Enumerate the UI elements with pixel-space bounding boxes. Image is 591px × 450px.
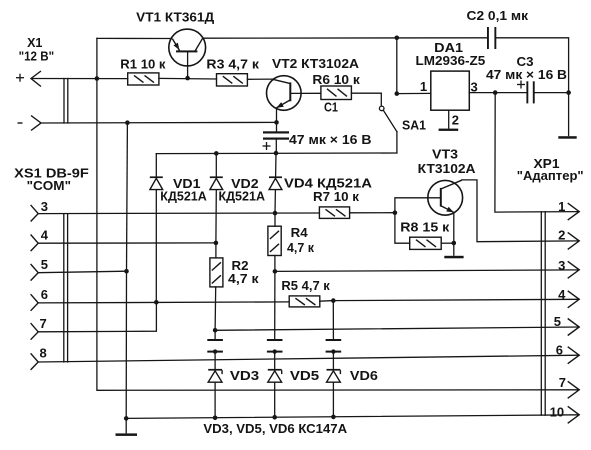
XP1 pin10 arrow: [568, 406, 580, 423]
resistor R5: [289, 296, 320, 307]
svg-text:VD3: VD3: [230, 369, 259, 383]
wire ground bus to XP1 pin10: [126, 415, 579, 419]
wire output node down to XP1 pin1: [495, 93, 579, 213]
voltage regulator DA1 box: [431, 71, 470, 110]
svg-text:R8 15 к: R8 15 к: [400, 221, 450, 235]
svg-text:VD3, VD5, VD6 КС147А: VD3, VD5, VD6 КС147А: [203, 422, 347, 436]
node minus wire VT2 emitter C1: [274, 120, 279, 125]
SA1 switch blade: [384, 111, 397, 132]
svg-text:КТ3102А: КТ3102А: [418, 162, 476, 176]
svg-text:4: 4: [41, 228, 49, 243]
svg-text:X1: X1: [27, 36, 42, 50]
XP1 pin2 arrow: [568, 232, 580, 249]
wire R3 to VT2 collector: [247, 78, 272, 80]
wire top rail right segment VT1 collector to C2: [203, 37, 488, 39]
XS1 pin4 wire: [38, 242, 216, 244]
ground bottom left: [116, 418, 138, 436]
node C1 bottom VD4 top: [274, 151, 279, 156]
diode VD1: [150, 176, 163, 189]
X1 connector body double line: [63, 79, 65, 124]
wire R2 node to XP1 pin5: [215, 327, 579, 330]
node plus wire x97: [95, 76, 100, 81]
wire VD4 anode to pin3 node: [274, 190, 276, 214]
resistor R3: [217, 74, 248, 86]
zener VD5: [268, 369, 282, 382]
svg-text:VT2 КТ3102А: VT2 КТ3102А: [272, 57, 359, 71]
XS1 pin3 wire: [38, 212, 319, 215]
node VD6 ground bus: [331, 415, 336, 420]
svg-text:4,7 к: 4,7 к: [228, 272, 259, 286]
transistor VT2: [267, 76, 302, 111]
wire R4 node to XP1 pin3: [275, 270, 579, 272]
wire R5 node to XP1 pin4: [333, 299, 579, 300]
wire C1 bottom plate to VD line: [275, 140, 277, 153]
SA1 switch contact: [379, 106, 384, 111]
XS1 pin6 wire to R5: [38, 302, 289, 303]
resistor R7: [319, 207, 349, 219]
DA1 pin2 stem: [448, 110, 450, 128]
node DA1 pin1 vertical: [395, 91, 400, 96]
svg-text:SA1: SA1: [402, 119, 426, 133]
wire cap VD6 to zener VD6: [332, 353, 334, 369]
wire R4 node down to cap VD5: [274, 271, 276, 339]
diode VD2: [210, 176, 223, 189]
node pin5 end x127: [124, 269, 129, 274]
wire VD1 column: [155, 154, 157, 177]
svg-text:3: 3: [471, 80, 478, 95]
XS1 pin8 arrow: [31, 353, 39, 370]
svg-text:7: 7: [40, 316, 47, 331]
zener VD3: [208, 369, 222, 382]
svg-text:VT3: VT3: [432, 148, 458, 162]
XP1 pin1 arrow: [568, 203, 580, 220]
svg-text:7: 7: [559, 375, 566, 390]
wire SA1 to VD top line: [396, 132, 398, 153]
svg-text:47 мк × 16 В: 47 мк × 16 В: [486, 68, 567, 82]
node top rail / SA1-DA1 vertical: [395, 36, 400, 41]
svg-text:"Адаптер": "Адаптер": [517, 169, 584, 183]
svg-text:10: 10: [550, 405, 564, 420]
wire R5 right lead: [320, 300, 334, 303]
node C3 right ground: [566, 90, 571, 95]
svg-text:3: 3: [41, 199, 48, 214]
svg-text:6: 6: [556, 343, 563, 358]
capacitor C3: [526, 81, 534, 103]
svg-text:2: 2: [452, 112, 459, 127]
svg-text:4: 4: [558, 287, 566, 302]
resistor R6: [321, 86, 352, 100]
node R4 bottom XP1 pin3: [273, 269, 278, 274]
wire +12V vertical bus x=97 down to XP1 pin7 line: [97, 38, 579, 390]
XP1 pin3 arrow: [568, 261, 580, 278]
connector X1 minus arrow: [31, 116, 41, 131]
X1 plus sign: [16, 74, 24, 82]
wire pin7 node to cap VD3: [214, 330, 216, 339]
XS1 pin4 arrow: [31, 235, 39, 252]
wire X1 plus to R1: [32, 78, 128, 80]
wire VT1 base stem: [187, 52, 189, 78]
node R5 VD6 column: [331, 298, 336, 303]
svg-text:"COM": "COM": [27, 179, 71, 193]
resistor R2 vertical: [210, 258, 223, 287]
wire VD4 column cathode: [275, 153, 277, 176]
ground under VT3 emitter: [444, 256, 463, 258]
node VD4 R4 pin3: [273, 211, 278, 216]
wire R7 to VT3 base node: [350, 212, 395, 214]
svg-text:LM2936-Z5: LM2936-Z5: [416, 54, 486, 68]
capacitor above VD5: [267, 339, 283, 354]
node pin3 VT3 base R8: [393, 210, 398, 215]
wire VD2 anode to pin4 node: [215, 190, 217, 243]
svg-text:R6 10 к: R6 10 к: [312, 73, 360, 87]
svg-text:VD2: VD2: [231, 177, 259, 191]
XP1 pin7 arrow: [568, 381, 580, 398]
node VD1 anode pin6 line: [154, 300, 159, 305]
XS1 pin7 wire riser to VD1 node: [38, 302, 156, 332]
capacitor above VD6: [326, 339, 342, 354]
wire zener VD6 anode to ground bus: [332, 382, 334, 417]
svg-text:3: 3: [558, 258, 565, 273]
XS1 pin6 arrow: [31, 294, 39, 311]
svg-text:5: 5: [554, 314, 561, 329]
node minus wire x127: [125, 120, 130, 125]
XS1 pin5 arrow: [31, 264, 39, 281]
X1 minus sign: [18, 122, 23, 124]
wire cap VD5 to zener VD5: [274, 353, 276, 369]
ground under C2 C3: [558, 93, 576, 139]
XS1 pin8 wire to XP1 pin6: [38, 355, 579, 362]
svg-text:VD4 КД521А: VD4 КД521А: [284, 177, 372, 191]
wire pin3 node to R4: [274, 213, 276, 226]
XS1 connector body double line: [63, 214, 65, 362]
node VD5 ground bus: [272, 415, 277, 420]
C3 plus mark: [517, 81, 525, 89]
wire zener VD5 anode to ground bus: [274, 382, 276, 417]
wire R1 right lead to R3 through VT1 base node: [159, 77, 217, 80]
node VD2 top: [214, 151, 219, 156]
svg-text:8: 8: [40, 346, 47, 361]
node R8 VT3 emitter: [452, 241, 457, 246]
wire R8 left lead: [395, 213, 410, 244]
wire pin4 node to R2: [215, 243, 217, 258]
capacitor above VD3: [207, 339, 223, 354]
svg-text:C2 0,1 мк: C2 0,1 мк: [467, 9, 529, 23]
resistor R1: [128, 73, 159, 85]
resistor R8: [410, 237, 442, 249]
svg-text:КД521А: КД521А: [219, 190, 266, 204]
wire VT3 base jog: [395, 198, 440, 213]
XP1 connector body double line: [540, 212, 542, 415]
node VT1 base junction: [185, 76, 190, 81]
svg-text:R3 4,7 к: R3 4,7 к: [206, 58, 259, 72]
wire X1 minus to C1 column: [41, 121, 277, 124]
capacitor C2: [487, 27, 496, 49]
svg-text:КД521А: КД521А: [160, 190, 207, 204]
svg-text:R5 4,7 к: R5 4,7 к: [281, 279, 330, 293]
wire C1 column upper: [276, 122, 278, 131]
wire R8 right lead: [441, 242, 454, 244]
wire C2 right plate to ground corner: [495, 38, 568, 93]
wire VT2 base lead to R6: [291, 92, 321, 94]
svg-text:"12 В": "12 В": [19, 50, 55, 64]
svg-text:R1 10 к: R1 10 к: [120, 58, 166, 72]
wire C3 right lead: [534, 92, 569, 94]
svg-text:R4: R4: [291, 226, 308, 240]
svg-text:VT1 КТ361Д: VT1 КТ361Д: [136, 10, 214, 24]
resistor R4 vertical: [268, 226, 281, 255]
node VD3 ground bus: [213, 416, 218, 421]
svg-text:R7 10 к: R7 10 к: [313, 190, 360, 204]
XS1 pin5 wire: [38, 271, 126, 273]
XS1 pin3 arrow: [31, 205, 39, 222]
wire x127 vertical minus to ground: [126, 123, 129, 272]
svg-text:2: 2: [558, 228, 565, 243]
XS1 pin7 arrow: [31, 323, 39, 340]
wire VD top line: [156, 152, 397, 155]
svg-text:5: 5: [41, 257, 48, 272]
wire DA1 pin1 to SA1 node: [396, 38, 398, 94]
connector X1 plus arrow: [31, 71, 41, 87]
XP1 pin6 arrow: [568, 347, 580, 364]
XP1 pin4 arrow: [568, 291, 580, 308]
svg-text:C3: C3: [517, 55, 534, 69]
svg-text:1: 1: [558, 199, 565, 214]
svg-text:4,7 к: 4,7 к: [287, 241, 315, 255]
transistor VT3: [428, 180, 463, 256]
wire +12V top rail left segment: [97, 37, 171, 39]
zener VD6: [327, 369, 341, 382]
svg-text:R2: R2: [232, 259, 249, 273]
svg-text:VD6: VD6: [350, 369, 378, 383]
wire VD2 column cathode: [215, 153, 217, 176]
wire R4 bottom to XP1 pin3 line: [274, 256, 276, 272]
node DA1 output: [493, 90, 498, 95]
capacitor C1: [263, 131, 289, 139]
wire zener VD3 anode to ground bus: [214, 382, 216, 418]
wire DA1 output to C3: [469, 92, 527, 94]
svg-text:47 мк × 16 В: 47 мк × 16 В: [289, 133, 372, 147]
node ground bus left: [124, 416, 129, 421]
wire R2 bottom to pin7 node: [214, 287, 217, 330]
node VD2 R2 pin4: [214, 241, 219, 246]
wire R6 right lead to SA1 contact: [351, 93, 381, 106]
wire R5 right node down to cap VD6: [332, 301, 334, 339]
ground under DA1 pin2: [439, 129, 459, 131]
svg-text:VD5: VD5: [290, 369, 319, 383]
wire VT3 collector to XP1 pin2: [462, 180, 579, 242]
svg-text:C1: C1: [324, 100, 338, 114]
C1 plus mark: [263, 142, 271, 150]
wire cap VD3 to zener VD3: [214, 353, 216, 369]
transistor VT1: [169, 29, 206, 66]
diode VD4: [269, 176, 282, 189]
svg-text:1: 1: [420, 79, 427, 94]
node R2 bottom cap VD3 pin7: [213, 328, 218, 333]
XP1 pin5 arrow: [568, 319, 580, 336]
wire VT2 emitter vertical: [276, 108, 278, 122]
svg-text:6: 6: [41, 287, 48, 302]
